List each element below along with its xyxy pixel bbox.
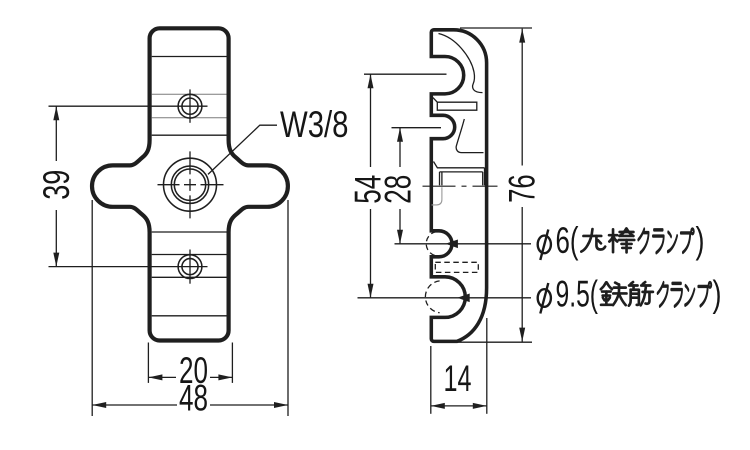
upper small hole: [178, 94, 202, 118]
inner feature line top: [152, 56, 227, 58]
dim 28 line: [399, 128, 401, 167]
inner feature line above bulge: [152, 134, 227, 136]
dash-dot centre line of nut: [423, 185, 498, 187]
hidden circle phi9.5 rebar: [425, 281, 439, 313]
faint pocket line below centreline: [432, 187, 442, 205]
svg-text:W3/8: W3/8: [280, 104, 349, 145]
dim 39 extension/center lines: [49, 105, 208, 107]
central threaded hole W3/8: [164, 158, 217, 211]
dim 48 line: [92, 404, 177, 406]
svg-text:39: 39: [36, 170, 77, 200]
tab (side lug): [433, 98, 477, 111]
hidden slot rectangle: [435, 262, 478, 272]
inner moulding line (top corner): [439, 34, 483, 93]
svg-text:): ): [696, 220, 705, 261]
dim 20 line: [148, 376, 176, 378]
svg-text:48: 48: [179, 377, 208, 418]
dim 54 extension line: [364, 73, 447, 75]
groove edge lines around upper hole: [152, 93, 227, 95]
groove edge lines around lower hole: [152, 254, 227, 256]
side view outline with clamp notches: [431, 30, 486, 342]
svg-text:28: 28: [378, 175, 419, 204]
hidden circle phi6 rod: [426, 232, 436, 256]
front view outline of clamp body (cross-shaped plate): [92, 28, 288, 340]
inner moulding line (middle S): [456, 119, 483, 153]
dim 76 line: [521, 29, 523, 166]
leader phi6: [395, 243, 532, 245]
lower small hole: [178, 255, 202, 279]
dim 48 extension lines: [91, 200, 93, 416]
leader phi9.5: [358, 297, 532, 299]
svg-text:14: 14: [444, 358, 472, 399]
label phi9.5 (rebar clamp): [538, 289, 551, 307]
svg-text:9.5(: 9.5(: [556, 274, 599, 315]
dim 20 extension lines: [147, 343, 149, 383]
dim 28 extension line: [392, 127, 442, 129]
svg-text:): ): [713, 274, 722, 315]
dim 14 line: [431, 405, 487, 407]
leader W3/8: [208, 125, 277, 174]
dim 54 line: [370, 74, 372, 167]
dim 76 extension lines: [460, 27, 532, 29]
nut pocket step lines: [434, 162, 485, 168]
dim 39 line: [55, 106, 57, 161]
label phi6 (round-bar clamp): [538, 236, 551, 254]
svg-text:6(: 6(: [556, 220, 579, 261]
inner feature line below bulge: [152, 231, 227, 233]
dim 14 extension lines: [430, 346, 432, 414]
svg-text:76: 76: [502, 174, 543, 203]
inner feature line bottom: [152, 315, 227, 317]
